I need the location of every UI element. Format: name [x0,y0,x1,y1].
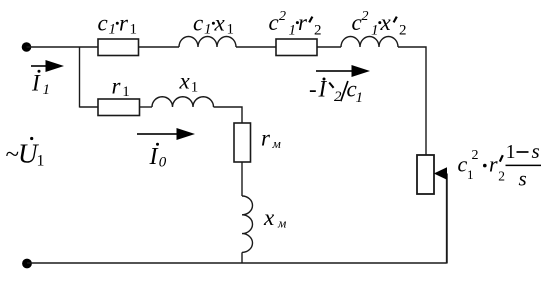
svg-text:r1: r1 [119,11,137,38]
svg-text:rм: rм [261,126,281,152]
label I1 [31,70,50,98]
svg-text:2: 2 [314,23,322,39]
label ~U1 source [6,137,45,170]
svg-text:c21: c21 [352,9,379,39]
wire top-left horizontal [27,46,99,48]
svg-text:r1: r1 [112,74,130,101]
svg-text:2: 2 [472,148,479,163]
svg-text:-I: -I [309,76,328,101]
inductor x1 [152,97,214,107]
inductor c1·x1 [179,37,236,48]
svg-text:x: x [380,10,392,35]
wire between c2r2 and c2x2 [317,46,341,48]
svg-text:c1: c1 [193,11,212,38]
wire between c1r1 and c1x1 [139,46,180,48]
wiper arrowhead into variable resistor [434,167,447,179]
terminal dot bottom-left [22,259,32,269]
svg-text:c21: c21 [269,9,297,39]
inductor c2·x'2 [341,37,398,48]
current arrow I0 [137,128,195,140]
resistor c2·r'2 [276,39,317,56]
wire rM to xM [241,162,243,196]
current arrow I1 [31,60,64,72]
wire between r1 and x1 [140,106,153,108]
inductor xM [242,196,253,252]
svg-text:c1: c1 [347,76,364,106]
svg-text:r: r [298,10,308,35]
wire xM to bottom [241,252,243,263]
svg-text:xм: xм [263,205,286,231]
resistor r1 [98,99,140,116]
label -I'2/c1 [309,76,363,106]
svg-text:r: r [489,152,498,177]
wire middle branch horizontal to r1 [80,106,99,108]
resistor rM [234,123,251,162]
svg-text:s: s [532,139,540,163]
svg-text:x1: x1 [214,11,235,38]
svg-text:2: 2 [399,23,407,39]
svg-text:s: s [519,167,527,191]
svg-text:I1: I1 [31,71,50,99]
wire bottom rail [27,262,447,264]
resistor c1·r1 [98,39,139,56]
svg-text:I0: I0 [149,144,167,171]
wire right riser [446,174,448,264]
svg-text:2: 2 [498,169,505,184]
svg-text:c1: c1 [98,11,117,38]
svg-text:x1: x1 [179,69,199,96]
node junction vertical wire [79,47,81,108]
wire between c1x1 and c2r2 [236,46,276,48]
wire x1 to magnetizing corner [214,107,243,123]
svg-text:~U1: ~U1 [6,139,45,170]
svg-text:2: 2 [334,89,342,105]
label c1^2 r'2 (1-s)/s [458,139,542,191]
variable resistor c1^2 r'2 (1-s)/s [417,155,434,194]
label I0 [149,143,167,171]
svg-text:1: 1 [506,142,516,163]
terminal dot top-left [22,42,32,52]
wire top-right corner [398,47,426,155]
svg-text:1: 1 [467,167,474,182]
svg-text:c: c [458,152,468,177]
current arrow -I'2/c1 [316,65,370,77]
